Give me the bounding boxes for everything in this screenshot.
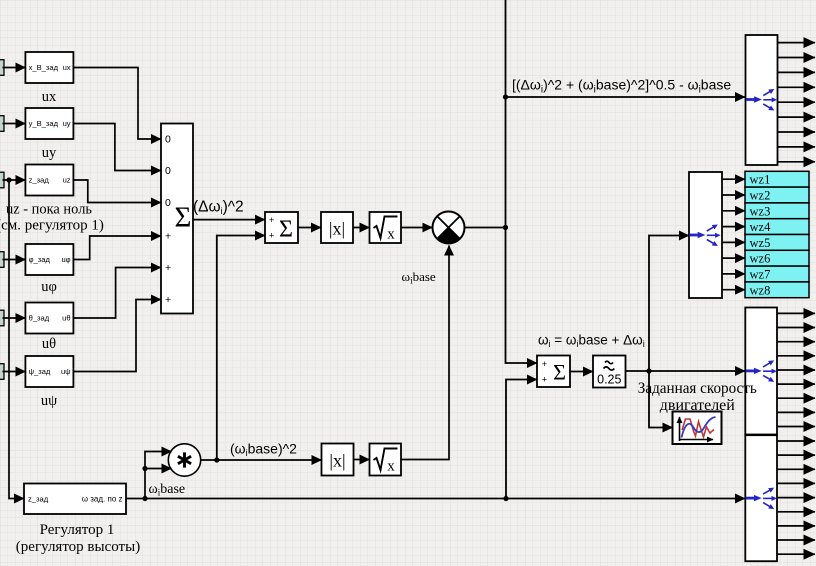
svg-text:z_зад: z_зад [28, 494, 49, 503]
svg-text:wz6: wz6 [750, 252, 771, 266]
wire DemuxA out6 → edge [777, 383, 815, 385]
junction ωibase branch to product [142, 466, 147, 471]
wire Demux1 out6 → edge [778, 116, 816, 118]
svg-text:wz7: wz7 [750, 268, 771, 282]
input port x_В_зад [0, 60, 4, 76]
goto tag wz6 [745, 250, 809, 266]
svg-text:двигателей: двигателей [660, 397, 735, 414]
goto tag wz4 [745, 219, 809, 235]
wire DemuxB out1 → edge [777, 440, 815, 442]
source block uψ (ψ_зад) [25, 356, 73, 387]
wire product → Abs2 [201, 459, 322, 461]
svg-text:wz4: wz4 [750, 220, 772, 234]
source block uφ (φ_зад) [25, 244, 73, 275]
wire Sum2 → Quantizer [570, 371, 593, 373]
scope block Заданная скорость двигателей [673, 412, 722, 445]
junction ωibase tap [142, 496, 147, 501]
wire Demux1 out3 → edge [778, 71, 816, 73]
svg-text:wz3: wz3 [750, 204, 771, 218]
wire port φ_зад → block uφ [3, 259, 26, 261]
demux block DemuxB [745, 435, 777, 561]
wire Quantizer → node [626, 370, 650, 372]
svg-text:+: + [269, 215, 274, 225]
wire DemuxB out7 → edge [777, 525, 815, 527]
source block uy (y_В_зад) [25, 108, 73, 139]
svg-text:x: x [387, 459, 395, 475]
wire DemuxB out2 → edge [777, 454, 815, 456]
wire ωi → Scope [649, 371, 673, 428]
svg-text:ωibase: ωibase [402, 269, 436, 286]
wire Δω node vertical → Sum2 in1 [506, 0, 538, 363]
wire DemuxB out5 → edge [777, 497, 815, 499]
wire DemuxA out3 → edge [777, 341, 815, 343]
wire ux → Sum in1 [73, 68, 161, 140]
svg-text:uψ: uψ [41, 393, 57, 409]
svg-text:+: + [165, 294, 171, 306]
quantizer block 0.25 [593, 356, 626, 388]
wire uz → Sum in3 [73, 180, 161, 203]
sqrt block Sqrt1 √x [370, 212, 402, 243]
wire ωi → Demux2 [649, 236, 689, 372]
input port θ_зад [0, 310, 4, 326]
wire DemuxA out4 → edge [777, 355, 815, 357]
wire DemuxB out6 → edge [777, 511, 815, 513]
svg-text:ux: ux [42, 89, 57, 105]
wire DemuxA out2 → edge [777, 327, 815, 329]
wire Регулятор 1 → Demux B (ωibase) [126, 498, 745, 500]
sum block Sum2 (ωi) [537, 356, 570, 388]
round sum block (circle with X, bottom wedge filled) [433, 212, 465, 244]
goto tag wz8 [745, 282, 809, 298]
wire Demux2 out8 → wz8 [722, 289, 745, 291]
wire Demux2 out1 → wz1 [722, 178, 745, 180]
wire Sqrt2 → round sum bottom [401, 246, 449, 460]
wire port y_В_зад → block uy [3, 123, 26, 125]
svg-text:x: x [387, 227, 395, 243]
wire uψ → Sum in6 [73, 300, 161, 372]
svg-text:uψ: uψ [61, 367, 71, 376]
junction ωibase branch to Sum2 [503, 496, 508, 501]
svg-text:+: + [165, 262, 171, 274]
svg-text:uφ: uφ [41, 279, 57, 295]
svg-text:uy: uy [63, 119, 71, 128]
wire Demux2 out7 → wz7 [722, 273, 745, 275]
svg-text:(ωibase)^2: (ωibase)^2 [230, 441, 297, 459]
source block ux (x_В_зад) [25, 52, 73, 83]
wire z_зад → Регулятор 1 [9, 180, 24, 499]
goto tag wz2 [745, 187, 809, 203]
svg-text:0: 0 [165, 134, 171, 146]
wire Sqrt1 → round sum [401, 227, 432, 229]
wire Demux1 out2 → edge [778, 57, 816, 59]
wire port x_В_зад → block ux [3, 67, 26, 69]
svg-text:ωi = ωibase + Δωi: ωi = ωibase + Δωi [538, 333, 645, 350]
demux block Demux2 [689, 172, 722, 298]
sum block Sum (6 inputs) [161, 124, 193, 314]
sqrt block Sqrt2 √x [370, 444, 402, 476]
svg-text:ωibase: ωibase [149, 482, 186, 498]
input port ψ_зад [0, 364, 4, 380]
svg-text:wz1: wz1 [750, 173, 771, 187]
wire DemuxA out9 → edge [777, 426, 815, 428]
svg-text:(см. регулятор 1): (см. регулятор 1) [0, 218, 104, 234]
wire DemuxB out3 → edge [777, 468, 815, 470]
svg-text:uz - пока ноль: uz - пока ноль [6, 202, 92, 218]
demux block Demux1 [746, 35, 778, 165]
wire Demux2 out5 → wz5 [722, 241, 745, 243]
source block uz (z_зад) [25, 165, 73, 196]
goto tag wz1 [745, 171, 809, 187]
svg-text:z_зад: z_зад [29, 176, 50, 185]
junction top branch [503, 94, 508, 99]
wire DemuxA out8 → edge [777, 411, 815, 413]
input port φ_зад [0, 252, 4, 268]
wire Sum → Sum1 in1 [193, 219, 265, 221]
svg-text:uθ: uθ [42, 336, 56, 352]
svg-text:θ_зад: θ_зад [29, 314, 50, 323]
svg-text:wz2: wz2 [750, 189, 771, 203]
svg-text:x_В_зад: x_В_зад [29, 63, 59, 72]
wire ωibase → Sum2 in2 [506, 380, 537, 499]
svg-text:Σ: Σ [553, 360, 566, 385]
wire DemuxA out5 → edge [777, 369, 815, 371]
source block uθ (θ_зад) [25, 303, 73, 334]
demux block DemuxA [745, 308, 777, 435]
svg-text:φ_зад: φ_зад [29, 255, 51, 264]
svg-text:[(Δωi)^2 + (ωibase)^2]^0.5 - ω: [(Δωi)^2 + (ωibase)^2]^0.5 - ωibase [512, 77, 731, 96]
svg-text:Заданная скорость: Заданная скорость [638, 380, 757, 397]
wire port ψ_зад → block uψ [3, 371, 26, 373]
abs block Abs2 |x| [322, 444, 354, 476]
svg-text:ux: ux [63, 63, 71, 72]
junction z_зад branch [6, 177, 11, 182]
wire DemuxA out1 → edge [777, 312, 815, 314]
wire Demux1 out9 → edge [778, 161, 816, 163]
wire round sum → node [465, 227, 506, 229]
wire Abs1 → Sqrt1 [353, 227, 370, 229]
wire port θ_зад → block uθ [3, 317, 26, 319]
wire uy → Sum in2 [73, 124, 161, 171]
wire DemuxB out8 → edge [777, 539, 815, 541]
wire ωibase² → Sum1 in2 [217, 236, 265, 461]
svg-text:Σ: Σ [279, 217, 293, 243]
wire Demux2 out4 → wz4 [722, 226, 745, 228]
wire ωibase → product in2 [145, 468, 172, 470]
svg-text:ψ_зад: ψ_зад [29, 367, 51, 376]
svg-text:+: + [542, 374, 547, 384]
wire Demux1 out7 → edge [778, 131, 816, 133]
wire Sum1 → Abs1 [298, 227, 321, 229]
wire port z_зад → block uz [3, 179, 26, 181]
svg-text:ω зад. по z: ω зад. по z [82, 495, 123, 504]
goto tag wz7 [745, 266, 809, 282]
svg-text:uφ: uφ [61, 255, 70, 264]
abs block Abs1 |x| [321, 212, 353, 243]
svg-text:|x|: |x| [329, 219, 345, 239]
svg-text:0.25: 0.25 [597, 373, 621, 387]
product block (circle with asterisk) [168, 444, 200, 476]
junction round sum output [503, 225, 508, 230]
wire node → Demux1 [506, 96, 746, 98]
wire DemuxA out7 → edge [777, 397, 815, 399]
svg-text:uz: uz [63, 176, 71, 185]
svg-text:uθ: uθ [62, 314, 70, 323]
goto tag wz5 [745, 235, 809, 251]
svg-text:+: + [165, 231, 171, 243]
svg-text:Σ: Σ [175, 202, 192, 234]
wire Demux2 out2 → wz2 [722, 194, 745, 196]
input port z_зад [0, 172, 4, 188]
junction ωibase² branch [214, 457, 219, 462]
svg-text:(Δωi)^2: (Δωi)^2 [193, 199, 244, 217]
wire Demux1 out1 → edge [778, 42, 816, 44]
svg-text:0: 0 [165, 165, 171, 177]
sum block Sum1 (Δωi² + ωibase²) [265, 212, 298, 243]
svg-text:(регулятор высоты): (регулятор высоты) [16, 539, 140, 555]
wire Demux1 out5 → edge [778, 101, 816, 103]
svg-text:+: + [269, 231, 274, 241]
svg-text:wz8: wz8 [750, 283, 771, 297]
goto tag wz3 [745, 203, 809, 219]
svg-text:y_В_зад: y_В_зад [29, 119, 59, 128]
wire uφ → Sum in4 [73, 236, 161, 260]
svg-text:uy: uy [42, 145, 57, 161]
input port y_В_зад [0, 116, 4, 132]
svg-text:wz5: wz5 [750, 236, 771, 250]
svg-text:|x|: |x| [329, 451, 345, 471]
wire DemuxB out9 → edge [777, 553, 815, 555]
wire DemuxB out4 → edge [777, 482, 815, 484]
svg-text:Регулятор 1: Регулятор 1 [40, 522, 115, 538]
wire ωibase → product in1 [145, 452, 172, 499]
svg-text:0: 0 [165, 197, 171, 209]
svg-text:+: + [542, 359, 547, 369]
wire uθ → Sum in5 [73, 268, 161, 319]
junction ωi node [646, 368, 651, 373]
wire Demux1 out4 → edge [778, 86, 816, 88]
wire Demux2 out6 → wz6 [722, 257, 745, 259]
wire Demux2 out3 → wz3 [722, 210, 745, 212]
subsystem block Регулятор 1 (z_зад → ω зад. по z) [24, 484, 126, 515]
wire Abs2 → Sqrt2 [354, 459, 370, 461]
wire ωi → Demux A [649, 370, 745, 372]
wire Demux1 out8 → edge [778, 146, 816, 148]
